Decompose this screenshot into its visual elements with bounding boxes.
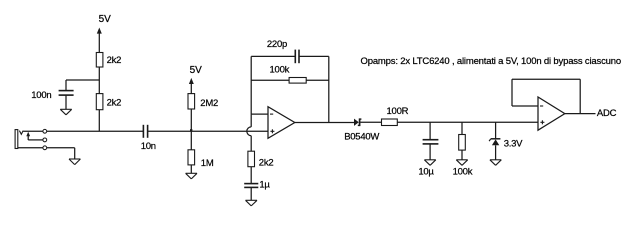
svg-text:10n: 10n: [141, 141, 156, 152]
svg-text:2k2: 2k2: [259, 158, 274, 169]
svg-text:5V: 5V: [190, 65, 203, 76]
svg-text:2M2: 2M2: [200, 98, 218, 109]
svg-text:1µ: 1µ: [259, 180, 270, 191]
svg-text:Opamps: 2x LTC6240 , alimentat: Opamps: 2x LTC6240 , alimentati a 5V, 10…: [361, 56, 621, 67]
svg-text:100k: 100k: [270, 64, 290, 75]
svg-text:3.3V: 3.3V: [504, 138, 523, 149]
svg-text:B0540W: B0540W: [344, 132, 379, 143]
svg-text:1M: 1M: [201, 158, 214, 169]
svg-text:10µ: 10µ: [418, 166, 434, 177]
svg-text:ADC: ADC: [597, 108, 617, 119]
svg-text:100n: 100n: [31, 90, 51, 101]
svg-text:100R: 100R: [387, 106, 409, 117]
svg-text:5V: 5V: [99, 14, 112, 25]
svg-text:2k2: 2k2: [107, 55, 122, 66]
svg-text:2k2: 2k2: [107, 98, 122, 109]
svg-text:220p: 220p: [267, 39, 287, 50]
svg-text:100k: 100k: [453, 166, 473, 177]
